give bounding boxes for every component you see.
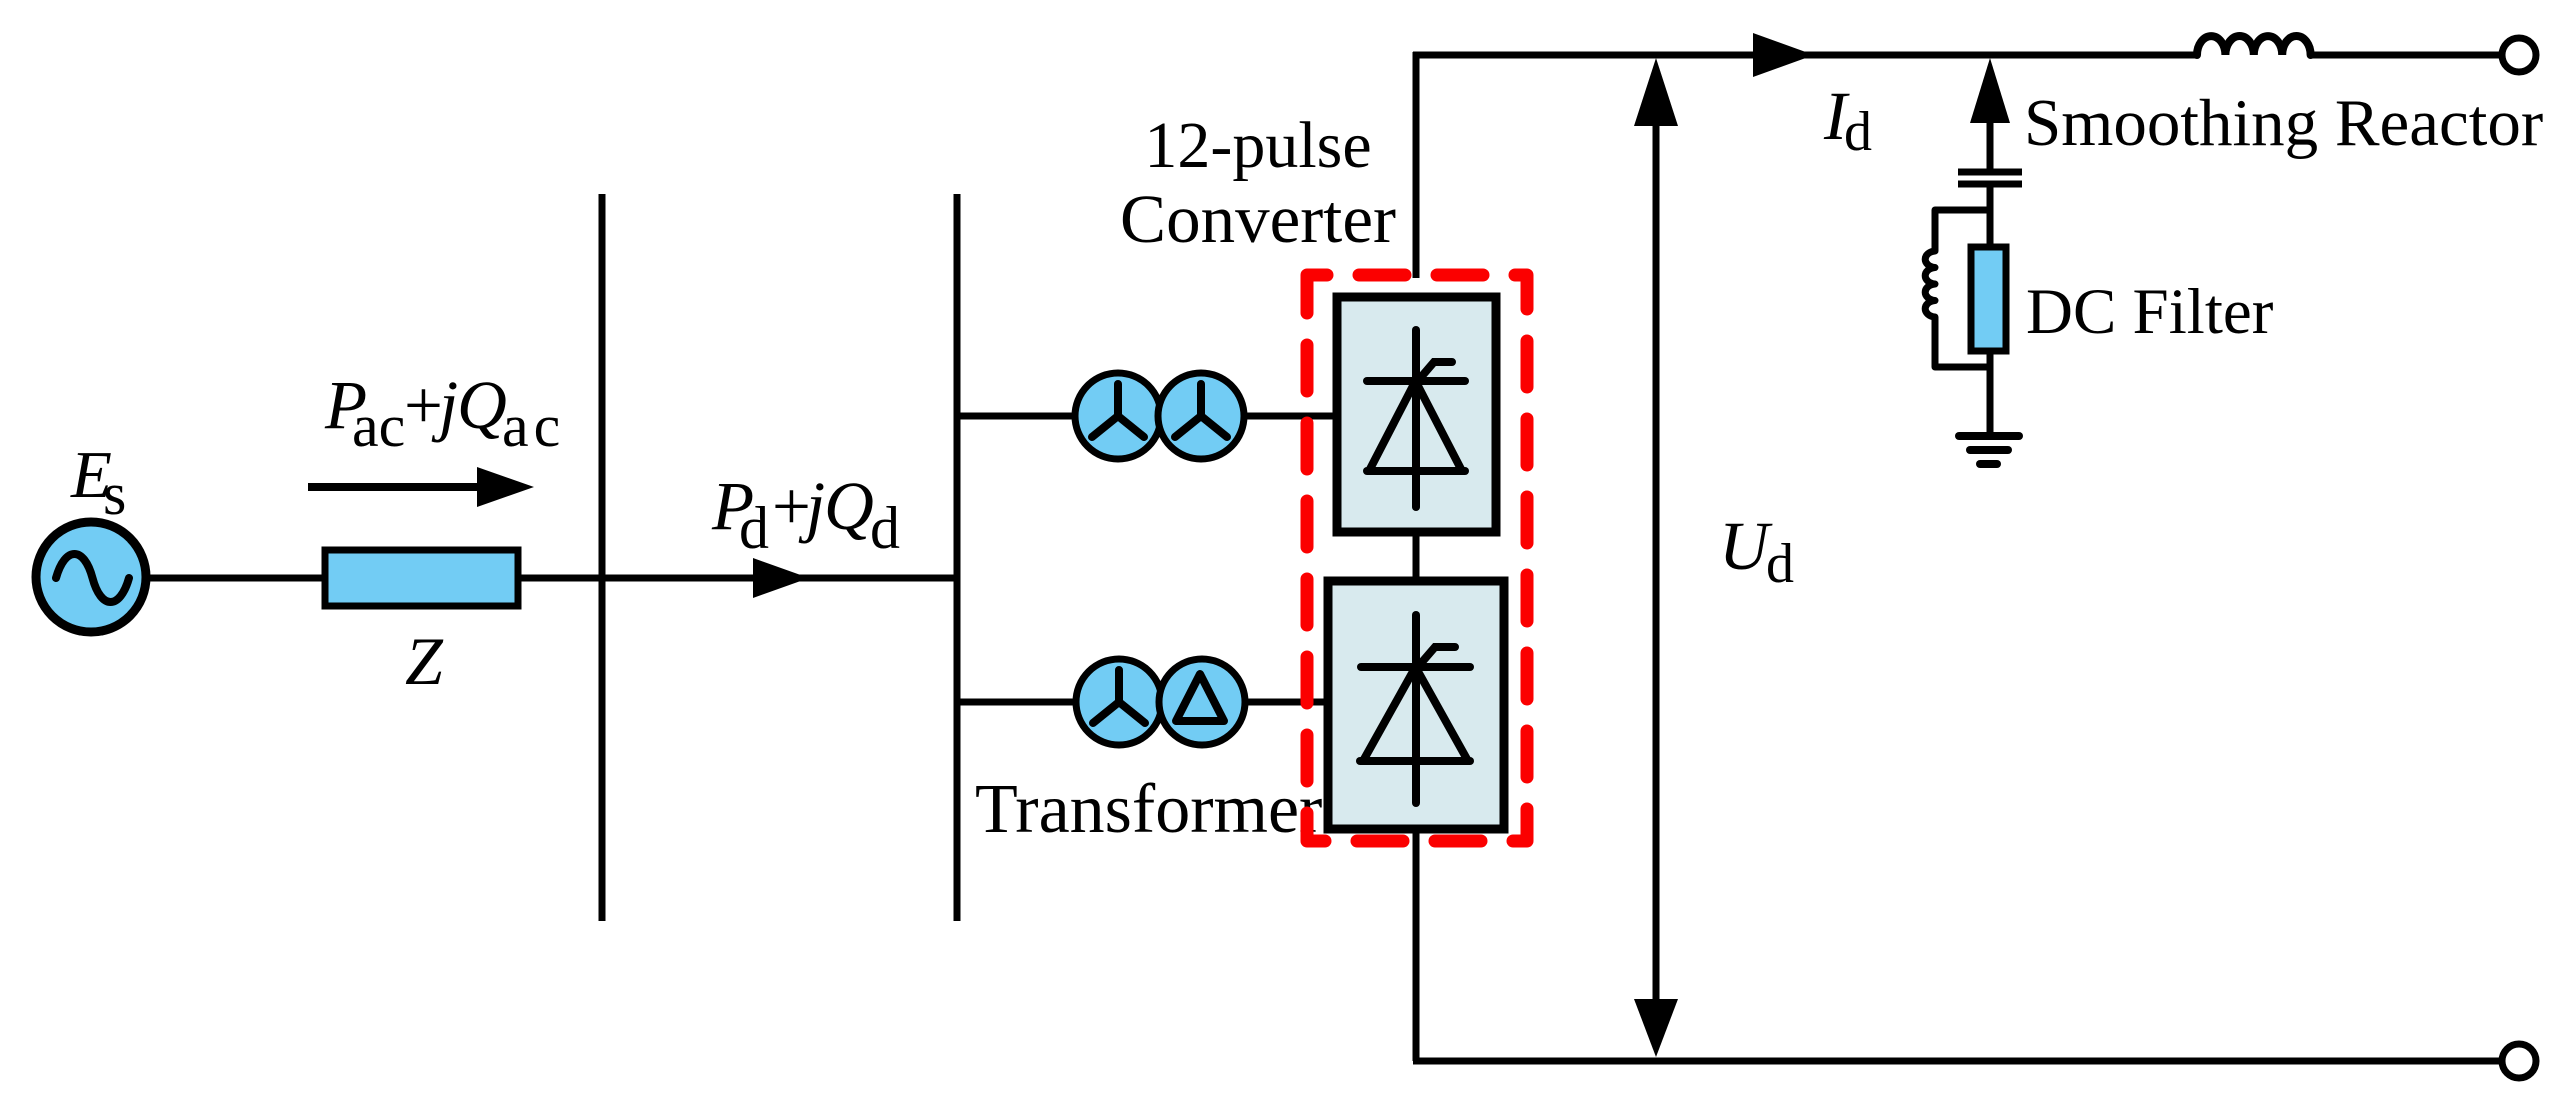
- wire transformer T1 to converter bridge 1: [1240, 413, 1337, 420]
- svg-text:DC Filter: DC Filter: [2026, 276, 2274, 348]
- label Pd+jQd: [711, 468, 900, 561]
- dc filter resistor (blue): [1971, 247, 2006, 351]
- svg-text:+: +: [404, 367, 443, 443]
- thyristor in bridge 1: [1367, 330, 1465, 507]
- AC source Es: [36, 522, 146, 632]
- bus bar 1: [599, 194, 606, 921]
- dc filter capacitor: [1958, 172, 2022, 184]
- svg-text:Q: Q: [824, 468, 874, 544]
- svg-text:Converter: Converter: [1120, 181, 1396, 257]
- arrowhead Id on top wire: [1753, 33, 1814, 77]
- bottom terminal: [2502, 1044, 2536, 1078]
- wire bus2 to transformer T2: [957, 699, 1080, 706]
- bottom dc wire: [1413, 1058, 2502, 1065]
- svg-text:12-pulse: 12-pulse: [1144, 109, 1371, 182]
- arrow Pac: [308, 467, 534, 507]
- ground: [1959, 436, 2019, 464]
- impedance Z: [325, 550, 518, 606]
- wire converter top to dc line top: [1413, 52, 1420, 278]
- Ud measurement line with double arrows: [1634, 58, 1678, 1057]
- svg-text:d: d: [739, 495, 769, 561]
- 12-pulse converter red dashed box: [1307, 275, 1527, 841]
- svg-text:d: d: [1844, 101, 1872, 163]
- top terminal: [2502, 38, 2536, 72]
- dc filter branch arrow (up): [1970, 58, 2010, 169]
- svg-text:Transformer: Transformer: [975, 771, 1322, 848]
- bus bar 2: [954, 194, 961, 921]
- wire from Z through bus 1 to bus 2: [517, 575, 957, 582]
- top dc wire: [1413, 52, 2197, 59]
- svg-text:U: U: [1719, 508, 1773, 584]
- svg-text:ac: ac: [352, 393, 405, 459]
- wire capacitor to parallel LC: [1987, 184, 1994, 250]
- svg-text:Q: Q: [457, 367, 507, 443]
- svg-text:d: d: [870, 495, 900, 561]
- wire bus2 to transformer T1: [957, 413, 1080, 420]
- wire transformer T2 to converter bridge 2: [1240, 699, 1328, 706]
- arrowhead Pd on wire: [753, 558, 809, 598]
- transformer T1 (Y-Y): [1075, 373, 1244, 459]
- label Pac+jQac: [324, 367, 565, 459]
- wire coil to top terminal: [2310, 52, 2500, 59]
- svg-text:d: d: [1766, 533, 1794, 595]
- smoothing reactor coil: [2197, 36, 2311, 55]
- thyristor in bridge 2: [1360, 615, 1470, 803]
- wire from source Es to impedance Z: [140, 575, 326, 582]
- transformer T2 (Y-Delta): [1076, 659, 1245, 745]
- converter bridge 1 box: [1337, 297, 1496, 532]
- svg-text:s: s: [103, 461, 126, 527]
- dc filter inductor branch: [1925, 210, 1990, 367]
- wire between bridges: [1413, 532, 1420, 580]
- wire resistor to ground: [1987, 351, 1994, 436]
- converter bridge 2 box: [1328, 581, 1504, 829]
- wire bridge 2 to bottom wire: [1413, 830, 1420, 1061]
- svg-text:Z: Z: [405, 623, 444, 699]
- svg-text:Smoothing Reactor: Smoothing Reactor: [2024, 86, 2543, 160]
- svg-text:ac: ac: [502, 393, 565, 459]
